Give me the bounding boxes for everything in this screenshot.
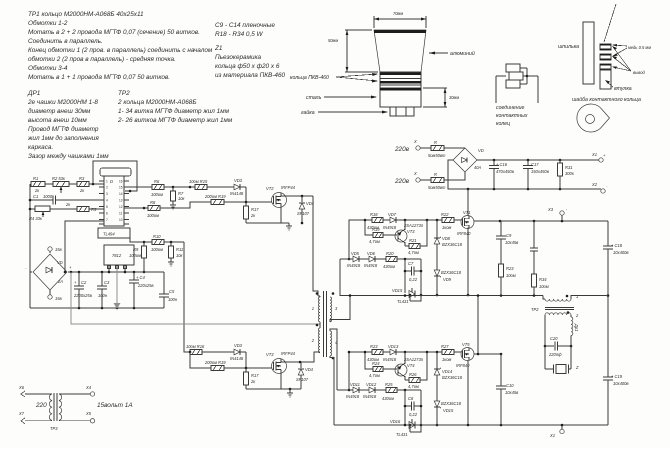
svg-text:жил 1мм до заполнения: жил 1мм до заполнения <box>27 134 99 142</box>
svg-text:гайка: гайка <box>301 109 315 116</box>
diode VD5 <box>230 343 246 361</box>
svg-text:VD: VD <box>478 148 484 153</box>
svg-text:шайба контактного кольца: шайба контактного кольца <box>572 96 641 103</box>
wire drain <box>281 359 287 362</box>
wire <box>207 186 234 188</box>
svg-text:2к: 2к <box>250 379 256 384</box>
resistor R10 <box>130 234 184 252</box>
wire row2 feed <box>190 352 211 368</box>
svg-text:R8: R8 <box>150 200 156 205</box>
svg-text:4: 4 <box>106 199 108 203</box>
label steel with arrow <box>306 95 377 101</box>
svg-text:R10: R10 <box>153 234 161 239</box>
winding 1 <box>312 292 320 322</box>
svg-text:Обмотки 3-4: Обмотки 3-4 <box>28 64 68 72</box>
note text block C9-C14 / Z1 <box>214 22 286 79</box>
svg-text:100ом: 100ом <box>147 213 159 218</box>
wire right column with C18 <box>603 221 629 377</box>
svg-text:IN4918: IN4918 <box>363 394 377 399</box>
wire winding4 top feed <box>330 329 337 390</box>
svg-text:каркаса.: каркаса. <box>28 144 53 151</box>
wire down to gate node <box>245 187 247 202</box>
svg-text:6: 6 <box>106 212 108 216</box>
svg-text:VD15: VD15 <box>392 288 403 293</box>
transducer horn drawing <box>374 30 426 116</box>
svg-text:4,7ом: 4,7ом <box>369 239 380 244</box>
label piezo rings with arrows <box>290 73 378 83</box>
capacitor C8 0.22 <box>404 390 423 432</box>
zener VD9 BZX36C18 <box>434 270 462 296</box>
svg-text:100ом: 100ом <box>129 253 141 258</box>
winding secondary TR3 <box>59 385 133 423</box>
wire source row <box>246 207 281 223</box>
ground <box>286 223 292 230</box>
svg-text:R24: R24 <box>372 361 380 366</box>
dimension 50mm <box>328 30 378 72</box>
diode VD6 SF107 <box>296 362 314 389</box>
resistor R17 <box>244 202 260 223</box>
svg-text:Z1: Z1 <box>214 45 223 52</box>
svg-text:+: + <box>74 280 77 285</box>
resistor R20a 430om <box>383 251 421 269</box>
transistor VT5 IRF840 <box>456 342 474 368</box>
diode VD7 <box>383 212 442 230</box>
svg-text:5: 5 <box>106 205 108 209</box>
transistor VT1 IRF840 <box>457 210 474 236</box>
svg-text:R31: R31 <box>565 165 573 170</box>
svg-text:3: 3 <box>335 306 338 311</box>
svg-text:IRF840: IRF840 <box>457 231 471 236</box>
svg-text:0,22: 0,22 <box>409 412 418 417</box>
svg-text:R11: R11 <box>176 247 183 252</box>
resistor R18 430om <box>367 212 383 230</box>
svg-text:10х400в: 10х400в <box>613 381 629 386</box>
svg-text:IN4918: IN4918 <box>383 225 397 230</box>
wire down <box>245 352 247 368</box>
wire IC gnd branch <box>65 221 104 272</box>
svg-text:Х7: Х7 <box>18 411 25 416</box>
wire plus rail 310V <box>477 159 599 161</box>
svg-text:ТР2: ТР2 <box>531 307 539 312</box>
svg-text:R: R <box>434 140 437 145</box>
svg-text:VD6: VD6 <box>367 251 376 256</box>
label copper 0.5mm <box>612 44 651 57</box>
shunt regulator VD16 TL431 <box>390 419 422 437</box>
ground <box>168 262 174 266</box>
diode VD5a <box>347 251 369 268</box>
svg-text:BZX36C18: BZX36C18 <box>441 401 462 406</box>
svg-text:2200х25в: 2200х25в <box>73 293 93 298</box>
svg-text:10х400в: 10х400в <box>613 250 629 255</box>
core <box>324 291 327 357</box>
svg-text:С5: С5 <box>169 289 175 294</box>
svg-text:из материала ПКВ-460: из материала ПКВ-460 <box>215 72 286 79</box>
wire drain row right <box>474 220 608 222</box>
wire drain <box>281 193 287 196</box>
svg-text:соединение: соединение <box>496 105 525 111</box>
damper resistor R34 <box>530 221 549 296</box>
svg-text:Конец обмотки 1 (2 пров. в пар: Конец обмотки 1 (2 пров. в параллель) со… <box>28 46 213 54</box>
wire drain row to midpoint <box>474 296 478 355</box>
svg-text:BZX36C18: BZX36C18 <box>442 242 463 247</box>
resistor R24 4.7om <box>369 361 383 378</box>
capacitor C16 <box>489 160 515 189</box>
zener VD8 BZX36C18 <box>434 220 463 270</box>
svg-text:Х4: Х4 <box>85 385 92 390</box>
resistor R5 <box>65 202 104 212</box>
rectifier VD 40A bridge <box>453 148 484 172</box>
note text block TP1 <box>28 11 213 81</box>
svg-text:1: 1 <box>576 294 578 299</box>
svg-text:-: - <box>606 184 608 189</box>
label nut with arrow <box>301 109 388 116</box>
svg-text:4: 4 <box>335 340 338 345</box>
wire pin11 row <box>124 207 148 209</box>
svg-text:16: 16 <box>119 180 123 184</box>
capacitor C5 100n <box>159 272 178 308</box>
svg-text:диаметр внеш 30мм: диаметр внеш 30мм <box>28 107 91 115</box>
svg-text:обмотки 2 (2 пров в параллель): обмотки 2 (2 пров в параллель) - средняя… <box>28 55 176 63</box>
svg-text:С2: С2 <box>81 280 87 285</box>
svg-text:IN4918: IN4918 <box>346 394 360 399</box>
zener VD14 BZX36C18 <box>434 352 463 401</box>
capacitor C3 100n <box>97 272 110 308</box>
contact rings stack on stud <box>600 44 611 89</box>
transistor VT2 IRFP44 <box>266 185 296 208</box>
svg-text:2к: 2к <box>65 202 71 207</box>
wire to IC with node <box>89 183 104 185</box>
diode VD6a <box>364 251 386 268</box>
svg-text:R26: R26 <box>409 372 417 377</box>
svg-text:7: 7 <box>106 218 108 222</box>
wire bottom rail <box>334 424 608 426</box>
terminal X mains1 <box>394 139 431 153</box>
svg-text:R17: R17 <box>251 207 259 212</box>
svg-text:4,7ом: 4,7ом <box>408 250 419 255</box>
svg-text:Обмотки 1-2: Обмотки 1-2 <box>28 19 68 27</box>
core TR2 <box>531 307 574 312</box>
terminal X3 <box>547 207 567 221</box>
svg-text:13: 13 <box>119 199 123 203</box>
svg-text:12: 12 <box>119 205 123 209</box>
svg-text:2 кольца М2000НМ-А068Б: 2 кольца М2000НМ-А068Б <box>117 99 196 106</box>
svg-text:200ом R19: 200ом R19 <box>204 360 226 365</box>
wire R24 feed <box>365 352 373 369</box>
terminal X4 bottom <box>549 424 564 438</box>
resistor R27 1kom <box>441 344 462 362</box>
dimension 30mm <box>423 88 459 107</box>
svg-text:VD14: VD14 <box>442 369 453 374</box>
wire ground rail <box>30 307 164 309</box>
svg-text:15: 15 <box>119 186 123 190</box>
wire minus rail <box>448 160 601 189</box>
wire source down <box>467 361 469 426</box>
svg-text:R1: R1 <box>33 176 38 181</box>
ground <box>287 389 293 397</box>
svg-text:1: 1 <box>106 180 108 184</box>
capacitor C1 <box>29 194 104 205</box>
svg-text:алюминий: алюминий <box>450 50 475 57</box>
resistor R8 <box>147 200 160 218</box>
svg-text:220в: 220в <box>394 146 410 153</box>
svg-text:2: 2 <box>575 313 579 318</box>
wire x340 column <box>339 259 341 296</box>
svg-text:IRFP44: IRFP44 <box>281 185 296 190</box>
svg-text:VD12: VD12 <box>366 382 377 387</box>
wire <box>383 219 390 221</box>
winding 2 secondary <box>544 311 579 369</box>
svg-text:2е чашки М2000НМ 1-8: 2е чашки М2000НМ 1-8 <box>27 99 98 106</box>
svg-text:Х1: Х1 <box>549 433 555 438</box>
svg-text:SF107: SF107 <box>296 377 309 382</box>
svg-text:10к: 10к <box>178 196 186 201</box>
wire feedback loop above IC <box>93 161 137 191</box>
svg-text:кольца ф50 х ф20 х 6: кольца ф50 х ф20 х 6 <box>215 63 280 70</box>
svg-text:Пьезокерамика: Пьезокерамика <box>215 54 262 61</box>
svg-text:7812: 7812 <box>112 253 122 258</box>
resistor R 5om50w top <box>428 140 446 158</box>
svg-text:R2 53к: R2 53к <box>52 176 66 181</box>
resistor R 5om50w bottom <box>428 172 446 190</box>
svg-text:+: + <box>603 153 606 158</box>
svg-text:R5: R5 <box>91 207 97 212</box>
svg-text:2к: 2к <box>250 213 256 218</box>
svg-text:TL431: TL431 <box>396 432 408 437</box>
svg-text:150х450в: 150х450в <box>531 169 550 174</box>
transistor VT4 2SA1273 <box>383 352 424 380</box>
svg-text:SF107: SF107 <box>297 211 310 216</box>
svg-text:IN4918: IN4918 <box>347 263 361 268</box>
wire long drop to lower driver <box>184 242 190 352</box>
svg-text:VD7: VD7 <box>388 212 397 217</box>
wire <box>160 202 211 208</box>
wire drain to TR1 w1 <box>313 196 318 296</box>
svg-text:R20: R20 <box>386 251 394 256</box>
resistor R23b 430om <box>367 344 383 362</box>
svg-text:+ С18: + С18 <box>611 243 623 248</box>
winding primary TR3 <box>18 385 52 424</box>
svg-text:5ом50вт: 5ом50вт <box>428 153 446 158</box>
wire pin8 row <box>124 186 152 188</box>
svg-text:': ' <box>566 208 567 213</box>
terminal X2 <box>591 182 608 193</box>
terminal X mains2 <box>394 171 431 185</box>
svg-text:высота внеш 10мм: высота внеш 10мм <box>28 117 87 124</box>
svg-text:430ом: 430ом <box>383 264 395 269</box>
svg-text:R17: R17 <box>251 373 259 378</box>
wire mid rail (half-bridge midpoint) <box>340 295 543 297</box>
transistor VT3 IRFP44 <box>266 351 296 374</box>
svg-text:Х6: Х6 <box>18 385 25 390</box>
svg-text:VD5: VD5 <box>351 251 360 256</box>
wire <box>69 183 77 185</box>
resistor R3 <box>77 176 89 193</box>
resistor R22 1kom <box>441 212 462 230</box>
svg-text:R4 33к: R4 33к <box>29 216 43 221</box>
svg-text:IN4148: IN4148 <box>230 356 244 361</box>
svg-text:Х2: Х2 <box>591 182 598 187</box>
svg-text:Мотать в 1 + 1 провода МГТФ 0,: Мотать в 1 + 1 провода МГТФ 0,07 50 витк… <box>28 73 170 81</box>
wire center tap <box>319 322 321 328</box>
svg-text:VT5: VT5 <box>462 342 470 347</box>
wire raw supply to TR1 center tap <box>71 272 320 324</box>
svg-text:С8: С8 <box>408 396 414 401</box>
svg-text:R23: R23 <box>370 344 378 349</box>
capacitor C2 2200x25v <box>73 272 93 308</box>
potentiometer R2 53k <box>52 176 69 193</box>
wire gate <box>224 367 272 369</box>
svg-text:11: 11 <box>119 212 123 216</box>
svg-text:R3: R3 <box>79 176 85 181</box>
note text block TP2 <box>117 90 233 124</box>
svg-text:С9 - С14 пленочные: С9 - С14 пленочные <box>215 22 275 29</box>
svg-text:10к: 10к <box>176 253 184 258</box>
resistor R19 4.7om <box>369 227 383 244</box>
svg-text:100ом: 100ом <box>151 192 163 197</box>
diode VD13 <box>383 344 442 362</box>
resistor R19a 200om <box>204 194 226 205</box>
wire <box>164 186 195 188</box>
svg-text:1ком: 1ком <box>442 357 451 362</box>
svg-text:Др1: Др1 <box>574 323 579 331</box>
svg-text:R19: R19 <box>372 227 380 232</box>
diode VD12 <box>363 382 386 399</box>
svg-text:ТР2: ТР2 <box>118 90 130 97</box>
wire VD11 row <box>337 389 353 391</box>
svg-text:10ом: 10ом <box>539 284 549 289</box>
svg-text:R18: R18 <box>370 212 378 217</box>
washer of contact ring <box>572 96 641 132</box>
capacitor C4 220x25v <box>129 272 154 308</box>
svg-text:С9: С9 <box>506 233 512 238</box>
svg-text:R25: R25 <box>385 382 393 387</box>
svg-text:BZX36C18: BZX36C18 <box>442 375 463 380</box>
svg-text:2SA1273п: 2SA1273п <box>403 223 424 228</box>
svg-text:кольца ПКВ-460: кольца ПКВ-460 <box>290 75 329 81</box>
diode VD4 SF107 <box>297 196 315 224</box>
svg-text:VT2: VT2 <box>266 186 274 191</box>
wire source down <box>468 228 469 295</box>
dimension 70mm <box>374 11 426 28</box>
label box TL494 <box>98 228 130 238</box>
svg-text:200ом R19: 200ом R19 <box>204 194 226 199</box>
svg-text:100н: 100н <box>98 293 108 298</box>
resistor R15 10om <box>189 179 208 190</box>
svg-text:R27: R27 <box>441 344 449 349</box>
svg-text:VD3: VD3 <box>234 178 243 183</box>
svg-text:VT3: VT3 <box>266 352 274 357</box>
svg-text:VD11: VD11 <box>350 382 360 387</box>
wire <box>383 351 390 353</box>
svg-text:R21: R21 <box>409 238 417 243</box>
label aluminium with arrow <box>429 50 475 57</box>
wire drain up to minus rail <box>467 189 469 216</box>
transistor VT3 2SA1273 <box>383 220 424 246</box>
svg-text:2: 2 <box>311 338 315 343</box>
svg-text:С3: С3 <box>104 280 110 285</box>
resistor R1 <box>31 176 45 193</box>
rectifier VD 2A bridge <box>25 254 72 290</box>
resistor R7 <box>171 187 186 205</box>
svg-text:колец: колец <box>496 121 510 127</box>
resistor R16 10om <box>186 344 205 355</box>
shunt regulator VD15 TL431 <box>392 288 422 304</box>
svg-text:VT1: VT1 <box>463 210 471 215</box>
svg-text:шпилька: шпилька <box>558 44 579 50</box>
label vtulka <box>605 80 632 92</box>
connector X4 top <box>48 247 63 253</box>
svg-text:15в: 15в <box>55 247 63 252</box>
svg-text:3: 3 <box>106 192 108 196</box>
svg-text:R18 - R34 0,5 W: R18 - R34 0,5 W <box>215 31 264 38</box>
svg-text:70мм: 70мм <box>393 11 403 16</box>
svg-text:15вольт 1А: 15вольт 1А <box>97 402 133 409</box>
wire feed column <box>349 352 372 390</box>
svg-text:ДР1: ДР1 <box>27 90 41 97</box>
svg-text:100ом: 100ом <box>151 247 163 252</box>
wire <box>444 172 465 180</box>
svg-text:TL431: TL431 <box>397 299 409 304</box>
svg-text:R34: R34 <box>539 277 547 282</box>
svg-text:VD15: VD15 <box>443 408 454 413</box>
svg-text:220: 220 <box>35 402 47 409</box>
svg-text:IRFP44: IRFP44 <box>281 351 296 356</box>
svg-text:15в: 15в <box>55 296 63 301</box>
svg-text:VT3: VT3 <box>407 229 415 234</box>
wire feed column <box>349 220 372 259</box>
svg-text:+: + <box>69 265 72 270</box>
capacitor C7 0.22 <box>404 259 423 301</box>
svg-text:С7: С7 <box>408 261 414 266</box>
wire source row <box>246 373 281 389</box>
svg-text:R22: R22 <box>441 212 449 217</box>
wire <box>444 147 465 149</box>
svg-text:С10: С10 <box>506 383 514 388</box>
wire to gate node <box>224 201 272 203</box>
svg-text:+ С4: + С4 <box>136 275 145 280</box>
svg-text:10ом: 10ом <box>506 273 516 278</box>
wire plus rail <box>68 271 164 273</box>
wire winding3 bottom to mid rail <box>330 296 350 322</box>
svg-text:VD4: VD4 <box>305 367 314 372</box>
svg-text:1- 34 витка МГТФ диаметр жил 1: 1- 34 витка МГТФ диаметр жил 1мм <box>118 107 230 115</box>
svg-text:IN4918: IN4918 <box>383 357 397 362</box>
svg-text:10х45в: 10х45в <box>505 240 519 245</box>
svg-text:Х1: Х1 <box>591 152 597 157</box>
winding 1 primary <box>543 294 608 301</box>
piezo Z1 <box>545 365 579 374</box>
wire R20a feed row <box>340 258 353 260</box>
svg-text:2: 2 <box>106 186 108 190</box>
label vyvod <box>612 46 645 75</box>
svg-text:IN4148: IN4148 <box>230 191 244 196</box>
potentiometer R4 33k <box>29 206 77 221</box>
wire winding4 bottom to gnd rail <box>330 356 334 425</box>
wire small frame on IC top <box>100 168 131 176</box>
diode VD11 <box>346 382 369 399</box>
svg-text:VT4: VT4 <box>407 363 415 368</box>
svg-text:100н: 100н <box>168 297 178 302</box>
winding 4 <box>330 331 338 359</box>
zener VD15b BZX36C18 <box>434 401 462 426</box>
svg-text:R6: R6 <box>154 179 160 184</box>
svg-text:контактных: контактных <box>496 113 528 119</box>
wire left rail <box>29 184 31 308</box>
connector X5 bottom <box>48 290 63 301</box>
svg-text:30мм: 30мм <box>449 95 459 100</box>
svg-text:Мотать в 2 + 2 провода МГТФ 0,: Мотать в 2 + 2 провода МГТФ 0,07 (сечени… <box>28 28 200 36</box>
svg-text:220в: 220в <box>394 178 410 185</box>
